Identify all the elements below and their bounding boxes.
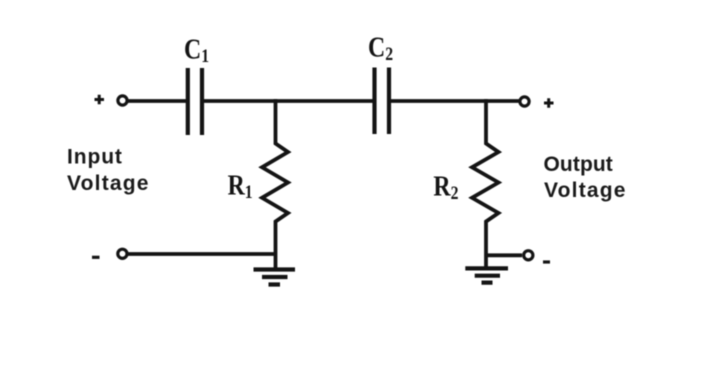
capacitor C2 bbox=[375, 68, 390, 135]
svg-text:C1: C1 bbox=[184, 34, 209, 67]
wire: C1 to C2 through node A bbox=[204, 99, 373, 103]
resistor R1 bbox=[262, 99, 288, 268]
svg-text:C2: C2 bbox=[368, 32, 393, 65]
capacitor C1 bbox=[188, 68, 202, 135]
svg-text:Voltage: Voltage bbox=[67, 172, 150, 195]
output + sign bbox=[544, 98, 554, 107]
input + sign bbox=[95, 95, 105, 104]
input - sign bbox=[92, 256, 100, 259]
svg-text:R1: R1 bbox=[228, 170, 253, 203]
node: output positive terminal bbox=[520, 97, 529, 106]
svg-text:Output: Output bbox=[544, 153, 613, 176]
node: input positive terminal bbox=[118, 96, 127, 105]
node: output negative terminal bbox=[524, 251, 533, 260]
svg-text:R2: R2 bbox=[433, 171, 458, 204]
output - sign bbox=[543, 260, 550, 263]
node: input negative terminal bbox=[118, 249, 127, 258]
wire: bottom left return bbox=[128, 252, 278, 256]
wire: R2 bottom to output negative terminal bbox=[486, 253, 522, 257]
ground under R2 bbox=[465, 268, 508, 282]
ground under R1 bbox=[254, 270, 296, 285]
svg-text:Input: Input bbox=[67, 146, 123, 169]
wire: C2 to output terminal bbox=[391, 99, 520, 103]
wire: input terminal to C1 bbox=[128, 99, 187, 103]
resistor R2 bbox=[472, 99, 499, 267]
svg-text:Voltage: Voltage bbox=[544, 179, 627, 202]
